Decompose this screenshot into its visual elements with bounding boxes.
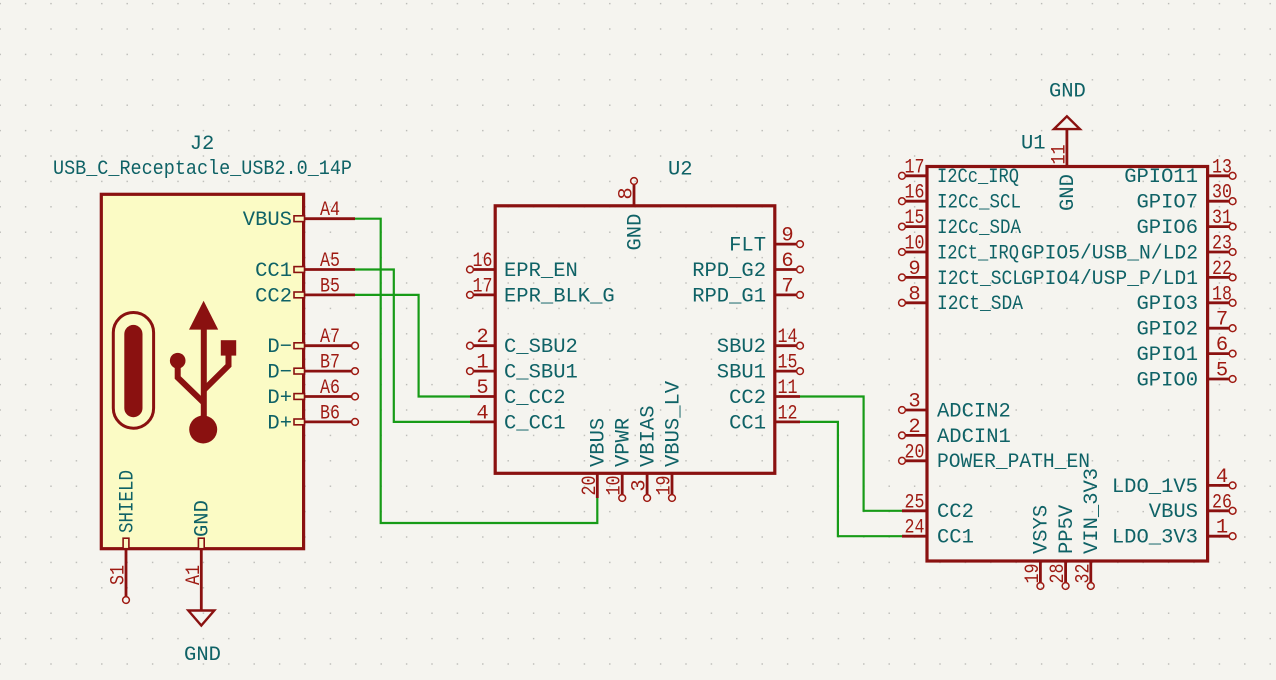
wire CC2 from U2 pin 11 to U1 pin 25: [800, 397, 902, 511]
pin 17 EPR_BLK_G of U2: [473, 293, 495, 296]
svg-text:VBUS: VBUS: [1149, 501, 1198, 524]
svg-text:2: 2: [476, 326, 488, 349]
svg-text:6: 6: [1216, 334, 1228, 357]
pin 8 GND of U2: [633, 184, 636, 205]
svg-text:A5: A5: [320, 250, 340, 273]
svg-text:25: 25: [905, 491, 925, 514]
pin 10 I2Ct_IRQ of U1: [905, 251, 927, 254]
svg-text:C_SBU2: C_SBU2: [504, 336, 578, 359]
svg-text:A7: A7: [320, 326, 340, 349]
pin 4 LDO_1V5 of U1: [1208, 484, 1230, 487]
pin 18 GPIO3 of U1: [1208, 301, 1230, 304]
svg-text:SBU1: SBU1: [717, 362, 766, 385]
USB trident right branch: [204, 353, 229, 390]
svg-text:U2: U2: [668, 158, 693, 181]
svg-text:GND: GND: [1057, 174, 1080, 211]
svg-text:A6: A6: [320, 377, 340, 400]
pin 3 ADCIN2 of U1: [905, 409, 927, 412]
svg-text:15: 15: [905, 207, 925, 230]
svg-text:30: 30: [1212, 182, 1232, 205]
pin A4 VBUS of J2: [305, 217, 356, 220]
svg-text:9: 9: [908, 258, 920, 281]
pin 20 VBUS of U2: [596, 473, 599, 498]
svg-text:POWER_PATH_EN: POWER_PATH_EN: [937, 451, 1090, 474]
svg-text:EPR_BLK_G: EPR_BLK_G: [504, 285, 615, 308]
pin A7 D− of J2: [305, 344, 352, 347]
svg-text:CC2: CC2: [729, 387, 766, 410]
pin 13 GPIO11 of U1: [1208, 174, 1230, 177]
svg-text:22: 22: [1212, 258, 1232, 281]
svg-text:17: 17: [473, 275, 493, 298]
svg-text:PP5V: PP5V: [1056, 504, 1079, 554]
svg-text:8: 8: [616, 187, 639, 199]
svg-text:I2Ct_SCL: I2Ct_SCL: [937, 268, 1023, 291]
pin B5 CC2 of J2: [305, 293, 356, 296]
svg-text:ADCIN2: ADCIN2: [937, 400, 1011, 423]
connector J2 body: [101, 194, 303, 548]
pin 14 SBU2 of U2: [775, 344, 797, 347]
svg-text:20: 20: [905, 441, 925, 464]
svg-text:LDO_3V3: LDO_3V3: [1112, 527, 1198, 550]
pin 6 RPD_G2 of U2: [775, 268, 797, 271]
USB trident arrow head: [189, 301, 218, 330]
pin 17 I2Cc_IRQ of U1: [905, 174, 927, 177]
svg-text:6: 6: [781, 250, 793, 273]
svg-text:C_SBU1: C_SBU1: [504, 362, 578, 385]
pin 16 I2Cc_SCL of U1: [905, 200, 927, 203]
svg-text:1: 1: [476, 352, 488, 375]
USB trident left branch: [178, 364, 204, 403]
svg-text:19: 19: [1022, 564, 1045, 584]
svg-text:CC2: CC2: [937, 501, 974, 524]
svg-text:D+: D+: [267, 387, 292, 410]
svg-text:7: 7: [781, 275, 793, 298]
svg-text:I2Ct_IRQ: I2Ct_IRQ: [937, 242, 1019, 265]
IC U1 body: [927, 167, 1208, 562]
svg-text:GND: GND: [184, 644, 221, 667]
wire VBUS from J2 A4 to U2 pin 20: [355, 219, 597, 523]
svg-text:18: 18: [1212, 283, 1232, 306]
pin A5 CC1 of J2: [305, 268, 356, 271]
pin 20 POWER_PATH_EN of U1: [905, 459, 927, 462]
pin 9 FLT of U2: [775, 243, 797, 246]
svg-text:VBIAS: VBIAS: [637, 405, 660, 467]
svg-text:GPIO4/USP_P/LD1: GPIO4/USP_P/LD1: [1021, 268, 1198, 291]
pin B7 D− of J2: [305, 370, 352, 373]
svg-text:1: 1: [1216, 517, 1228, 540]
pin 24 CC1 of U1: [902, 535, 927, 538]
svg-text:2: 2: [908, 416, 920, 439]
svg-text:32: 32: [1072, 564, 1095, 584]
svg-text:C_CC1: C_CC1: [504, 412, 566, 435]
svg-text:VBUS: VBUS: [243, 209, 292, 232]
svg-text:CC1: CC1: [937, 527, 974, 550]
svg-text:C_CC2: C_CC2: [504, 387, 566, 410]
svg-text:8: 8: [908, 283, 920, 306]
svg-text:VBUS: VBUS: [588, 418, 611, 467]
svg-text:20: 20: [579, 476, 602, 496]
svg-text:4: 4: [476, 402, 488, 425]
pin 2 ADCIN1 of U1: [905, 434, 927, 437]
svg-text:12: 12: [778, 402, 798, 425]
pin 23 GPIO5/USB_N/LD2 of U1: [1208, 251, 1230, 254]
svg-text:13: 13: [1212, 156, 1232, 179]
pin 9 I2Ct_SCL of U1: [905, 276, 927, 279]
svg-text:VBUS_LV: VBUS_LV: [662, 380, 685, 467]
svg-text:I2Cc_IRQ: I2Cc_IRQ: [937, 166, 1019, 189]
svg-text:GPIO1: GPIO1: [1136, 344, 1198, 367]
svg-text:GND: GND: [192, 500, 215, 537]
svg-text:GPIO2: GPIO2: [1136, 319, 1198, 342]
pin 32 VIN_3V3 of U1: [1089, 561, 1092, 583]
svg-text:24: 24: [905, 517, 925, 540]
svg-text:11: 11: [778, 377, 798, 400]
svg-text:I2Cc_SCL: I2Cc_SCL: [937, 192, 1021, 215]
svg-text:5: 5: [476, 377, 488, 400]
svg-text:VSYS: VSYS: [1031, 505, 1054, 554]
svg-text:9: 9: [781, 225, 793, 248]
pin 31 GPIO6 of U1: [1208, 225, 1230, 228]
USB trident stem: [201, 327, 207, 420]
svg-text:15: 15: [778, 352, 798, 375]
svg-text:31: 31: [1212, 207, 1232, 230]
wire CC1 from U2 pin 12 to U1 pin 24: [800, 422, 902, 536]
svg-text:EPR_EN: EPR_EN: [504, 260, 578, 283]
pin 19 VSYS of U1: [1039, 561, 1042, 583]
svg-text:USB_C_Receptacle_USB2.0_14P: USB_C_Receptacle_USB2.0_14P: [53, 158, 352, 181]
USB trident bottom circle: [189, 416, 217, 444]
pin 3 VBIAS of U2: [646, 473, 649, 494]
svg-text:SHIELD: SHIELD: [116, 470, 139, 533]
svg-text:23: 23: [1212, 233, 1232, 256]
svg-text:GND: GND: [624, 214, 647, 251]
pin 30 GPIO7 of U1: [1208, 200, 1230, 203]
USB trident right square: [221, 340, 236, 355]
pin 1 C_SBU1 of U2: [473, 370, 495, 373]
pin A1 GND of J2: [200, 549, 203, 600]
svg-text:D−: D−: [267, 336, 292, 359]
svg-text:CC1: CC1: [729, 412, 766, 435]
pin 15 SBU1 of U2: [775, 370, 797, 373]
pin 7 GPIO2 of U1: [1208, 327, 1230, 330]
pin 8 I2Ct_SDA of U1: [905, 301, 927, 304]
svg-text:14: 14: [778, 326, 798, 349]
svg-text:A4: A4: [320, 199, 340, 222]
pin S1 SHIELD of J2: [125, 549, 128, 597]
svg-text:16: 16: [905, 182, 925, 205]
svg-text:RPD_G1: RPD_G1: [692, 285, 766, 308]
svg-text:S1: S1: [108, 565, 131, 585]
svg-text:FLT: FLT: [729, 235, 766, 258]
pin 11 GND of U1: [1066, 130, 1069, 167]
svg-text:GND: GND: [1049, 81, 1086, 104]
svg-text:3: 3: [629, 479, 652, 491]
pin 25 CC2 of U1: [902, 509, 927, 512]
svg-text:17: 17: [905, 156, 925, 179]
svg-text:GPIO11: GPIO11: [1124, 166, 1198, 189]
svg-text:28: 28: [1047, 564, 1070, 584]
svg-text:26: 26: [1212, 491, 1232, 514]
svg-text:B7: B7: [320, 352, 340, 375]
pin 2 C_SBU2 of U2: [473, 344, 495, 347]
pin 4 C_CC1 of U2: [470, 420, 495, 423]
svg-text:7: 7: [1216, 309, 1228, 332]
IC U2 body: [495, 206, 775, 474]
svg-text:VPWR: VPWR: [613, 418, 636, 467]
pin 6 GPIO1 of U1: [1208, 352, 1230, 355]
svg-text:A1: A1: [183, 565, 206, 585]
pin B6 D+ of J2: [305, 420, 352, 423]
pin A6 D+ of J2: [305, 395, 352, 398]
svg-text:GPIO6: GPIO6: [1136, 217, 1198, 240]
pin 26 VBUS of U1: [1208, 509, 1230, 512]
svg-text:4: 4: [1216, 466, 1228, 489]
svg-text:GPIO3: GPIO3: [1136, 293, 1198, 316]
svg-text:ADCIN1: ADCIN1: [937, 426, 1011, 449]
svg-text:5: 5: [1216, 360, 1228, 383]
USB trident left circle: [170, 353, 186, 369]
pin 5 C_CC2 of U2: [470, 395, 495, 398]
svg-text:GPIO0: GPIO0: [1136, 369, 1198, 392]
pin 16 EPR_EN of U2: [473, 268, 495, 271]
svg-text:3: 3: [908, 391, 920, 414]
svg-text:I2Cc_SDA: I2Cc_SDA: [937, 217, 1022, 240]
svg-text:10: 10: [604, 476, 627, 496]
pin 11 CC2 of U2: [775, 395, 800, 398]
pin 15 I2Cc_SDA of U1: [905, 225, 927, 228]
USB-C connector oval outline: [113, 313, 153, 429]
svg-text:11: 11: [1048, 145, 1071, 165]
pin 7 RPD_G1 of U2: [775, 293, 797, 296]
USB-C connector oval inner bar: [124, 325, 142, 417]
wire CC1 from J2 A5 to U2 pin 4 C_CC1: [355, 270, 470, 422]
svg-text:RPD_G2: RPD_G2: [692, 260, 766, 283]
svg-text:D+: D+: [267, 412, 292, 435]
pin 10 VPWR of U2: [621, 473, 624, 494]
svg-text:GPIO5/USB_N/LD2: GPIO5/USB_N/LD2: [1021, 242, 1198, 265]
svg-text:16: 16: [473, 250, 493, 273]
svg-text:19: 19: [654, 476, 677, 496]
pin 22 GPIO4/USP_P/LD1 of U1: [1208, 276, 1230, 279]
svg-text:CC1: CC1: [255, 260, 292, 283]
wire CC2 from J2 B5 to U2 pin 5 C_CC2: [355, 295, 470, 397]
svg-text:LDO_1V5: LDO_1V5: [1112, 476, 1198, 499]
svg-text:J2: J2: [190, 133, 215, 156]
pin 19 VBUS_LV of U2: [671, 473, 674, 494]
svg-text:VIN_3V3: VIN_3V3: [1081, 468, 1104, 554]
svg-text:I2Ct_SDA: I2Ct_SDA: [937, 293, 1024, 316]
svg-text:GPIO7: GPIO7: [1136, 192, 1198, 215]
svg-text:10: 10: [905, 233, 925, 256]
pin 5 GPIO0 of U1: [1208, 378, 1230, 381]
ground symbol above U1: [1054, 116, 1080, 129]
pin 1 LDO_3V3 of U1: [1208, 535, 1230, 538]
pin 12 CC1 of U2: [775, 420, 800, 423]
svg-text:U1: U1: [1021, 132, 1046, 155]
svg-text:B5: B5: [320, 275, 340, 298]
svg-text:B6: B6: [320, 402, 340, 425]
svg-text:CC2: CC2: [255, 285, 292, 308]
svg-text:SBU2: SBU2: [717, 336, 766, 359]
pin 28 PP5V of U1: [1064, 561, 1067, 583]
svg-text:D−: D−: [267, 362, 292, 385]
ground symbol below J2: [200, 600, 203, 610]
